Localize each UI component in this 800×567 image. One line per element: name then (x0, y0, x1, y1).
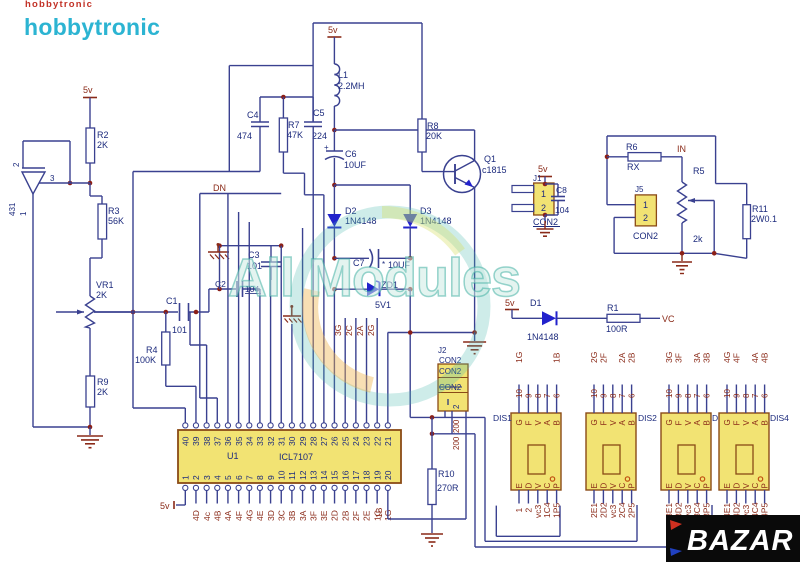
svg-text:1: 1 (181, 475, 191, 480)
svg-text:39: 39 (191, 436, 201, 446)
wire J2 row2 (430, 432, 475, 437)
svg-text:34: 34 (244, 436, 254, 446)
wire bottom node row (614, 251, 716, 256)
svg-text:13: 13 (308, 470, 318, 480)
svg-text:DIS4: DIS4 (770, 413, 789, 423)
svg-text:3D: 3D (266, 510, 276, 521)
svg-text:7: 7 (543, 393, 552, 398)
wire bus pin37 (200, 194, 217, 423)
svg-text:17: 17 (351, 470, 361, 480)
svg-text:J2: J2 (438, 346, 447, 355)
svg-text:1P5: 1P5 (552, 503, 562, 518)
svg-text:V: V (534, 483, 543, 489)
wire C1 row to VR1 bus (94, 311, 155, 313)
net label IN (677, 144, 686, 154)
svg-text:E: E (723, 483, 732, 488)
wire pin20 route to display (388, 381, 466, 519)
svg-text:VC: VC (662, 314, 675, 324)
svg-text:R7: R7 (288, 120, 300, 130)
svg-text:2K: 2K (96, 290, 107, 300)
net labels DIS2 bottom (589, 502, 637, 518)
potentiometer VR1 (56, 280, 114, 328)
svg-text:E: E (515, 483, 524, 488)
wire to R10 (431, 417, 433, 469)
capacitor C8 (545, 184, 569, 215)
svg-text:L1: L1 (338, 70, 348, 80)
pin numbers DIS1 (515, 389, 562, 398)
connector J1 (512, 174, 554, 217)
ground (R10) (421, 534, 443, 546)
pin numbers DIS4 (723, 389, 770, 398)
wire DIS1 pin stubs (519, 385, 557, 504)
svg-text:All Modules: All Modules (228, 248, 520, 308)
connector J2 (438, 346, 468, 411)
svg-text:3F: 3F (308, 511, 318, 521)
svg-text:5v: 5v (160, 501, 170, 511)
7-segment display DIS3 (661, 413, 712, 490)
power +5V symbol (D1) (505, 298, 519, 318)
inductor L1 (334, 64, 364, 106)
svg-text:R8: R8 (427, 121, 439, 131)
svg-text:224: 224 (312, 131, 327, 141)
svg-text:28: 28 (308, 436, 318, 446)
wire bus pin33 (259, 289, 261, 423)
svg-text:4D: 4D (191, 510, 201, 521)
svg-text:C: C (618, 483, 627, 489)
svg-text:3F: 3F (673, 353, 683, 363)
svg-text:ICL7107: ICL7107 (279, 452, 313, 462)
node L1/D2 top (332, 183, 410, 188)
wire D2 column to pin26 (333, 289, 335, 422)
svg-text:V: V (609, 420, 618, 426)
svg-text:E: E (665, 483, 674, 488)
net label 2C (344, 325, 354, 336)
svg-text:2A: 2A (355, 325, 365, 336)
svg-text:431: 431 (8, 202, 17, 216)
svg-text:hobbytronic: hobbytronic (25, 0, 93, 10)
svg-text:23: 23 (362, 436, 372, 446)
svg-text:2K: 2K (97, 140, 108, 150)
svg-text:7: 7 (618, 393, 627, 398)
7-segment display DIS1 (511, 413, 562, 490)
svg-text:32: 32 (266, 436, 276, 446)
svg-text:22: 22 (372, 436, 382, 446)
pin numbers DIS3 (665, 389, 712, 398)
net label 200 (b) (452, 436, 461, 450)
svg-text:R6: R6 (626, 142, 638, 152)
label DIS2 (638, 413, 657, 423)
svg-text:10: 10 (276, 470, 286, 480)
ground (below Q1 emitter) (463, 333, 486, 354)
svg-text:47K: 47K (287, 130, 303, 140)
node dots R2/R3/TL431 (68, 181, 93, 186)
diode D1 (512, 298, 607, 342)
logo hobbytronic (24, 14, 160, 40)
7-segment display DIS4 (719, 413, 770, 490)
svg-text:20K: 20K (426, 131, 442, 141)
svg-text:2D: 2D (330, 510, 340, 521)
svg-text:B: B (628, 420, 637, 425)
svg-text:6: 6 (628, 393, 637, 398)
svg-text:4c: 4c (202, 511, 212, 521)
svg-text:26: 26 (330, 436, 340, 446)
capacitor C3 (247, 246, 281, 280)
resistor R6 (605, 142, 682, 172)
capacitor C7 (332, 249, 412, 270)
svg-text:3A: 3A (298, 510, 308, 521)
shunt regulator U2 431 (8, 162, 55, 216)
svg-text:2: 2 (191, 475, 201, 480)
svg-text:R3: R3 (108, 206, 120, 216)
svg-text:DIS1: DIS1 (493, 413, 512, 423)
power +5V symbol (J1) (538, 164, 552, 183)
svg-text:G: G (723, 419, 732, 425)
svg-text:100R: 100R (606, 324, 628, 334)
ground (mid bus) (283, 305, 302, 323)
svg-text:C4: C4 (247, 110, 259, 120)
svg-text:V: V (742, 483, 751, 489)
wire R10 to ground (431, 505, 433, 534)
capacitor C5 (304, 97, 327, 141)
svg-text:18: 18 (362, 470, 372, 480)
svg-text:1: 1 (643, 200, 648, 210)
wire R1 to VC (640, 317, 660, 319)
svg-text:P: P (703, 483, 712, 488)
svg-text:V: V (684, 483, 693, 489)
svg-text:R5: R5 (693, 166, 705, 176)
svg-text:9: 9 (524, 393, 533, 398)
ground (near C3) (208, 243, 229, 259)
wire VR1 wiper to bus (94, 310, 135, 315)
svg-text:6: 6 (703, 393, 712, 398)
svg-text:5v: 5v (83, 85, 93, 95)
potentiometer R5 (678, 157, 705, 254)
svg-text:C: C (693, 483, 702, 489)
svg-text:F: F (599, 421, 608, 426)
wire top rail (313, 22, 422, 24)
wire R2 to node (89, 163, 91, 183)
svg-text:270R: 270R (437, 483, 459, 493)
svg-text:D: D (524, 483, 533, 489)
svg-text:10: 10 (665, 389, 674, 398)
svg-text:C5: C5 (313, 108, 325, 118)
wire J2 pins down (445, 411, 452, 434)
svg-text:Q1: Q1 (484, 154, 496, 164)
svg-text:A: A (618, 420, 627, 426)
resistor R9 (86, 376, 109, 407)
svg-text:3: 3 (202, 475, 212, 480)
svg-text:V: V (609, 483, 618, 489)
svg-text:8: 8 (534, 393, 543, 398)
svg-text:4F: 4F (731, 353, 741, 363)
svg-text:40: 40 (181, 436, 191, 446)
svg-text:B: B (553, 420, 562, 425)
wire bus pin31 (280, 246, 282, 423)
watermark All Modules text (228, 248, 520, 308)
svg-text:19: 19 (372, 470, 382, 480)
svg-text:9: 9 (599, 393, 608, 398)
wire loop left segment (133, 66, 260, 408)
svg-text:5: 5 (223, 475, 233, 480)
wire bus pin38 (190, 312, 207, 423)
logo hobbytronic small (25, 0, 93, 10)
svg-text:101: 101 (172, 325, 187, 335)
svg-text:33: 33 (255, 436, 265, 446)
svg-text:6: 6 (553, 393, 562, 398)
svg-text:1G: 1G (514, 352, 524, 363)
zener diode ZD1 (332, 280, 412, 310)
svg-text:G: G (515, 419, 524, 425)
wire bus pin23 (366, 318, 368, 423)
svg-text:9: 9 (266, 475, 276, 480)
wire bus pin28 (C5 column) (312, 127, 314, 423)
capacitor C2 (209, 279, 261, 297)
wire TL431 anode down (33, 194, 90, 427)
svg-text:V: V (742, 420, 751, 426)
power +5V symbol (R2 branch) (83, 85, 97, 128)
svg-text:2E: 2E (362, 510, 372, 521)
resistor R4 (135, 312, 170, 365)
wire J5 pin2 (614, 217, 635, 253)
ground (R5 block) (672, 253, 692, 273)
svg-text:8: 8 (255, 475, 265, 480)
svg-text:R4: R4 (146, 345, 158, 355)
svg-text:C2: C2 (215, 279, 226, 289)
svg-text:8: 8 (684, 393, 693, 398)
svg-text:36: 36 (223, 436, 233, 446)
ground (left bottom) (77, 436, 103, 448)
svg-text:V: V (534, 420, 543, 426)
resistor R2 (86, 128, 109, 163)
wire DN net (200, 193, 281, 195)
svg-text:3E: 3E (319, 510, 329, 521)
svg-text:BAZAR: BAZAR (687, 525, 794, 557)
svg-text:2: 2 (541, 203, 546, 213)
svg-text:2: 2 (12, 162, 21, 167)
svg-text:1N4148: 1N4148 (527, 332, 559, 342)
wire R7 bottom staircase (283, 152, 323, 195)
svg-text:37: 37 (212, 436, 222, 446)
svg-text:E: E (590, 483, 599, 488)
svg-text:U1: U1 (227, 451, 239, 461)
svg-text:104: 104 (555, 205, 569, 215)
wire Q1 emitter down (474, 188, 476, 333)
svg-text:2B: 2B (340, 510, 350, 521)
svg-text:3G: 3G (333, 325, 343, 336)
ground (J1) (537, 215, 554, 236)
svg-text:2K: 2K (97, 387, 108, 397)
svg-text:J1: J1 (533, 174, 542, 183)
svg-text:D: D (674, 483, 683, 489)
svg-text:2W0.1: 2W0.1 (751, 214, 777, 224)
svg-text:B: B (761, 420, 770, 425)
wire current loop top (607, 136, 747, 205)
svg-text:2P5: 2P5 (627, 503, 637, 518)
wire bus pin40 (133, 408, 185, 423)
svg-text:24: 24 (351, 436, 361, 446)
svg-text:2F: 2F (351, 511, 361, 521)
svg-text:J5: J5 (635, 185, 644, 194)
wire J5 pin1 (607, 204, 635, 206)
wire ZD1 column down (409, 289, 411, 417)
svg-text:DN: DN (213, 183, 226, 193)
svg-text:G: G (590, 419, 599, 425)
svg-text:1B: 1B (552, 352, 562, 363)
wire TL431 ref to node (39, 182, 90, 184)
wire rail outer (475, 434, 712, 547)
svg-text:R10: R10 (438, 469, 455, 479)
svg-text:200: 200 (452, 436, 461, 450)
svg-text:4E: 4E (255, 510, 265, 521)
svg-text:D1: D1 (530, 298, 542, 308)
svg-text:35: 35 (234, 436, 244, 446)
capacitor C1 (155, 296, 209, 335)
connector J5 (633, 185, 658, 241)
svg-text:10: 10 (515, 389, 524, 398)
wire bus pin32 (270, 267, 272, 423)
diode D3 (403, 185, 451, 258)
net labels DIS1 top (514, 352, 562, 363)
wire rail to R8 (421, 23, 423, 119)
resistor R1 (606, 303, 640, 334)
svg-text:D: D (599, 483, 608, 489)
svg-text:P: P (761, 483, 770, 488)
svg-text:8: 8 (609, 393, 618, 398)
node C4/R7/C5 header (260, 95, 313, 100)
capacitor C6 (324, 130, 367, 185)
svg-text:8: 8 (742, 393, 751, 398)
svg-text:7: 7 (751, 393, 760, 398)
net labels IC bottom (191, 507, 393, 521)
svg-text:2C: 2C (344, 325, 354, 336)
net labels DIS4 top (722, 352, 770, 363)
wire R9 to ground (88, 407, 93, 435)
svg-text:4G: 4G (244, 510, 254, 521)
svg-text:5v: 5v (538, 164, 548, 174)
svg-text:9: 9 (732, 393, 741, 398)
op-amp U1 ICL7107 (178, 423, 401, 491)
resistor R10 (428, 469, 459, 505)
svg-text:B: B (703, 420, 712, 425)
net labels DIS3 bottom (664, 502, 712, 518)
svg-text:R11: R11 (752, 204, 768, 214)
net label 2A (355, 325, 365, 336)
label DIS3 (712, 413, 731, 423)
logo BAZAR (666, 515, 800, 562)
wire emitter row (388, 330, 477, 335)
svg-text:DIS2: DIS2 (638, 413, 657, 423)
svg-text:11: 11 (287, 471, 297, 480)
svg-text:2B: 2B (627, 352, 637, 363)
svg-text:A: A (693, 420, 702, 426)
svg-text:2k: 2k (693, 234, 703, 244)
svg-text:R2: R2 (97, 130, 109, 140)
svg-text:21: 21 (383, 436, 393, 446)
wire R3 to VR1 (90, 239, 102, 296)
wire VR1 to R9 (89, 328, 91, 376)
wire R8 to Q1 base (422, 152, 455, 172)
svg-text:R9: R9 (97, 377, 109, 387)
wire R5 wiper (688, 198, 714, 253)
svg-text:7: 7 (244, 475, 254, 480)
svg-text:IN: IN (677, 144, 686, 154)
svg-text:F: F (732, 421, 741, 426)
svg-text:4F: 4F (234, 511, 244, 521)
svg-text:2: 2 (452, 404, 461, 409)
svg-text:D: D (732, 483, 741, 489)
wire Q1 collector (474, 130, 476, 161)
svg-text:10: 10 (723, 389, 732, 398)
svg-text:1: 1 (19, 211, 28, 216)
transistor Q1 (444, 154, 507, 193)
label DIS1 (493, 413, 512, 423)
svg-text:4B: 4B (212, 510, 222, 521)
wire bus pin29 (302, 228, 304, 423)
svg-text:31: 31 (276, 436, 286, 446)
svg-text:12: 12 (298, 470, 308, 480)
svg-text:474: 474 (237, 131, 252, 141)
wire DIS4 pin stubs (727, 385, 765, 504)
wire bottom pin stubs (196, 491, 377, 504)
wire rail middle (485, 417, 637, 541)
svg-text:27: 27 (319, 436, 329, 446)
svg-text:100K: 100K (135, 355, 156, 365)
net labels DIS2 top (589, 352, 637, 363)
svg-text:38: 38 (202, 436, 212, 446)
net label 200 (a) (452, 419, 461, 433)
label DIS4 (770, 413, 789, 423)
svg-text:C: C (543, 483, 552, 489)
net label 3G (333, 325, 343, 336)
svg-text:4A: 4A (223, 510, 233, 521)
wire bus pin22 (376, 318, 378, 423)
svg-text:hobbytronic: hobbytronic (24, 14, 160, 40)
svg-text:G: G (665, 419, 674, 425)
wire R4 to pin39 (166, 365, 196, 386)
wire TL431 pin2 loop (23, 141, 70, 183)
svg-text:A: A (751, 420, 760, 426)
svg-text:25: 25 (340, 436, 350, 446)
svg-text:RX: RX (627, 162, 640, 172)
svg-text:14: 14 (319, 470, 329, 480)
wire J2 row1 (410, 415, 485, 420)
svg-text:5v: 5v (328, 25, 338, 35)
wire C3 over-route (217, 243, 283, 289)
wire bus pin24 (355, 318, 357, 423)
wire bus pin35 (238, 212, 240, 423)
net labels DIS4 bottom (722, 502, 770, 518)
wire bus pin39 (195, 386, 197, 422)
svg-text:2: 2 (643, 213, 648, 223)
resistor R11 (743, 184, 777, 239)
svg-text:C6: C6 (345, 149, 357, 159)
power +5V symbol (rail) (327, 25, 341, 64)
svg-text:3B: 3B (702, 352, 712, 363)
svg-text:4: 4 (212, 475, 222, 480)
net label VC (662, 314, 675, 324)
pin numbers DIS2 (590, 389, 637, 398)
wire bus pin25 (344, 318, 346, 423)
svg-text:A: A (543, 420, 552, 426)
svg-text:20: 20 (383, 470, 393, 480)
net labels DIS3 top (664, 352, 712, 363)
svg-text:VR1: VR1 (96, 280, 114, 290)
watermark circle (296, 212, 484, 400)
wire C2 to C1 row (208, 289, 210, 312)
label CON2 (J1) (533, 217, 560, 227)
svg-text:16: 16 (340, 470, 350, 480)
svg-text:1B: 1B (374, 507, 384, 518)
